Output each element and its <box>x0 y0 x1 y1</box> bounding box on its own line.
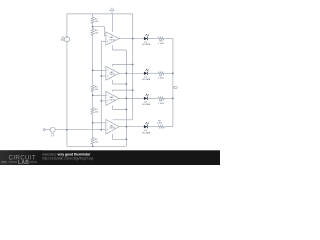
resistor R6 <box>158 37 165 40</box>
label R8 <box>158 101 164 105</box>
resistor R3 <box>91 85 94 92</box>
resistor R1 <box>91 17 94 24</box>
op-amp OA4 <box>106 119 119 134</box>
op-amp OA3 <box>106 92 119 106</box>
node plus bus op3 <box>101 100 102 101</box>
wire R7 to right rail <box>164 72 172 74</box>
svg-text:LM741: LM741 <box>109 99 116 101</box>
wire ladder below R3 <box>92 92 94 108</box>
node vminus tee op3 <box>126 109 127 110</box>
wire op1 vminus jog <box>113 45 127 50</box>
node right rail row2 <box>172 73 173 74</box>
wire left rail upper <box>66 14 68 37</box>
resistor R2 <box>91 29 94 36</box>
svg-text:1.0kΩ: 1.0kΩ <box>157 123 163 125</box>
wire vcc drop <box>132 14 134 120</box>
label R9 <box>157 120 163 124</box>
label OA2 <box>109 71 116 76</box>
wire op2 vminus jog <box>113 80 127 84</box>
node vcc op2 <box>132 64 133 65</box>
wire op2 vplus jog <box>113 65 133 67</box>
wire op1 vplus stub <box>112 14 114 32</box>
LED D4 <box>144 122 149 128</box>
node vminus bus out2 <box>126 73 127 74</box>
svg-text:LM741: LM741 <box>109 39 116 41</box>
wire R9 to right rail <box>164 126 172 128</box>
label R6 <box>158 41 164 45</box>
node vminus bus out4 <box>126 126 127 127</box>
node tap4 <box>92 122 93 123</box>
node ladder bottom <box>92 146 93 147</box>
op-amp OA2 <box>106 66 119 80</box>
label R7 <box>158 76 164 80</box>
wire op2 output <box>119 72 143 74</box>
voltage source V1 <box>64 37 69 42</box>
wire op3 vminus jog <box>113 105 127 109</box>
label D3 <box>142 102 151 106</box>
wire ladder mid <box>92 35 94 85</box>
wire op3 plus stub <box>101 100 106 102</box>
node out1 vcc drop <box>132 38 133 39</box>
wire port to plus bus <box>55 129 101 131</box>
node tap3 <box>92 95 93 96</box>
svg-text:LFLINEB: LFLINEB <box>142 104 151 106</box>
wire R6 to right rail <box>164 38 172 40</box>
node plus bus op2 <box>101 75 102 76</box>
svg-text:1.0kΩ: 1.0kΩ <box>158 43 164 45</box>
wire bottom rail <box>67 145 127 147</box>
label D2 <box>142 77 151 81</box>
node vminus tee op2 <box>126 83 127 84</box>
svg-text:LM741: LM741 <box>109 128 116 130</box>
wire ladder below R4 <box>92 114 94 138</box>
wire port to meter <box>46 129 51 131</box>
wire op3 output <box>119 97 143 99</box>
label R5 <box>95 139 99 144</box>
wire D4 to R9 <box>147 126 158 128</box>
resistor R7 <box>158 72 165 75</box>
net flag OUT <box>173 86 178 88</box>
label R2 <box>95 30 99 34</box>
wire R8 to right rail <box>164 97 172 99</box>
node plus bus op4 <box>101 129 102 130</box>
node port left rail <box>66 129 67 130</box>
label D1 <box>142 42 151 46</box>
label R1 <box>95 18 99 23</box>
port flag input <box>43 128 46 131</box>
svg-text:5 V: 5 V <box>61 40 65 42</box>
node tap2 <box>92 70 93 71</box>
resistor R9 <box>158 125 165 128</box>
wire right rail <box>172 39 174 127</box>
svg-text:LFLINEB: LFLINEB <box>142 44 151 46</box>
label OA4 <box>109 124 116 129</box>
wire op2 plus stub <box>101 75 106 77</box>
label V1 <box>61 38 65 43</box>
LED D3 <box>144 94 149 100</box>
svg-text:LFLINEB: LFLINEB <box>142 79 151 81</box>
footer bar <box>0 150 220 165</box>
label OA3 <box>109 96 116 101</box>
footer title text <box>42 152 94 160</box>
resistor R8 <box>158 97 165 100</box>
wire left rail lower <box>66 42 68 146</box>
wire op3 minus tap <box>93 94 106 96</box>
wire op4 output <box>119 126 143 128</box>
svg-text:http://circuitlab.com/c/6gv5hq: http://circuitlab.com/c/6gv5hq27zqx <box>42 156 94 160</box>
wire op4 vminus jog <box>113 134 127 139</box>
wire D3 to R8 <box>147 97 158 99</box>
wire plus input bus <box>100 41 102 129</box>
svg-text:1.0kΩ: 1.0kΩ <box>158 103 164 105</box>
wire op1 output <box>119 38 143 40</box>
meter circle V2 <box>50 127 55 132</box>
ladder rail stub top <box>92 14 94 17</box>
resistor R5 <box>91 138 94 145</box>
LED D1 <box>144 34 149 40</box>
wire top rail <box>67 13 133 15</box>
label R3 <box>95 87 99 92</box>
junction dots <box>66 26 173 147</box>
wire op4 minus tap <box>93 122 106 124</box>
svg-text:LFLINEB: LFLINEB <box>142 132 151 134</box>
VCC symbol <box>110 8 114 14</box>
svg-text:LAB: LAB <box>18 160 29 165</box>
wire op1 minus tap <box>93 27 106 36</box>
op-amp OA1 <box>106 32 119 45</box>
node vminus tee op4 <box>126 139 127 140</box>
wire D1 to R6 <box>147 38 158 40</box>
wire between R1 R2 <box>92 23 94 28</box>
resistor R4 <box>91 107 94 114</box>
node right rail row3 <box>172 98 173 99</box>
label R4 <box>95 109 99 114</box>
wire vminus bus <box>125 50 127 146</box>
LED D2 <box>144 69 149 75</box>
label D4 <box>142 130 151 134</box>
wire D2 to R7 <box>147 72 158 74</box>
wire op4 vplus jog <box>113 119 133 121</box>
node vminus bus out3 <box>126 98 127 99</box>
node tap1 <box>92 26 93 27</box>
wire ladder bottom stub <box>92 144 94 146</box>
label V2 <box>51 134 55 138</box>
svg-text:1.0kΩ: 1.0kΩ <box>158 78 164 80</box>
node vcc op3 <box>132 89 133 90</box>
wire op4 plus stub <box>101 129 106 131</box>
wire op2 minus tap <box>93 69 106 71</box>
CircuitLab logo <box>2 155 38 167</box>
svg-text:LM741: LM741 <box>109 74 116 76</box>
wire op3 vplus jog <box>113 90 133 92</box>
wire op1 plus stub <box>101 40 106 42</box>
label OA1 <box>109 36 116 41</box>
